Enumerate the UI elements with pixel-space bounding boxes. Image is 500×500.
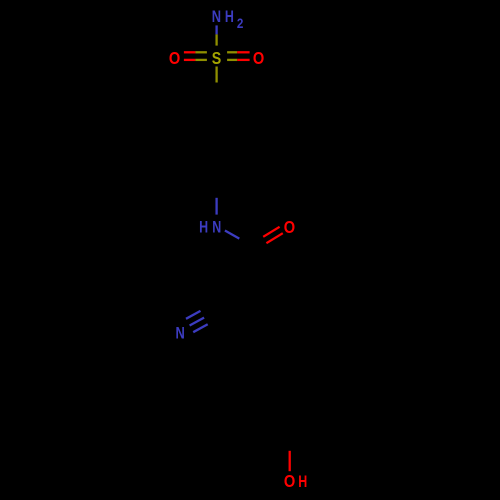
- carbonyl C=O double bond lower red half: [266, 233, 282, 243]
- svg-text:N: N: [176, 325, 185, 343]
- svg-text:O: O: [284, 471, 295, 491]
- sulfonamide NH2 label: [212, 8, 244, 31]
- double bond S=O left lower line: [184, 59, 207, 61]
- svg-text:2: 2: [237, 15, 244, 31]
- nitrile triple bond middle line (blue half): [190, 318, 205, 326]
- bond amide N - carbonyl C (blue half visible): [225, 231, 239, 239]
- hydroxyl OH label: [284, 471, 307, 491]
- bond S-C1 ring1 (olive sulfur half visible): [215, 67, 217, 83]
- bond ring2 C4' - hydroxyl O (red half visible): [289, 451, 291, 471]
- svg-text:H: H: [199, 219, 208, 237]
- double bond S=O left upper line: [184, 51, 207, 53]
- amide HN label: [199, 219, 221, 237]
- double bond S=O right lower line: [227, 59, 250, 61]
- svg-text:H: H: [225, 8, 234, 26]
- bond N-S (olive sulfur half): [215, 34, 217, 45]
- carbonyl C=O double bond upper red half: [263, 227, 279, 237]
- svg-text:N: N: [212, 219, 221, 237]
- bond N-S (blue amine half): [215, 25, 217, 34]
- nitrile triple bond top line (blue half): [186, 311, 201, 319]
- svg-text:S: S: [212, 48, 222, 68]
- nitrile triple bond bottom line (blue half): [193, 324, 208, 332]
- bond ring1 C4 - amide N (blue half visible): [215, 198, 217, 215]
- svg-text:O: O: [169, 48, 180, 68]
- double bond S=O right upper line: [227, 51, 250, 53]
- svg-text:O: O: [253, 48, 264, 68]
- svg-text:N: N: [212, 8, 221, 26]
- svg-text:H: H: [298, 473, 307, 491]
- svg-text:O: O: [284, 217, 295, 237]
